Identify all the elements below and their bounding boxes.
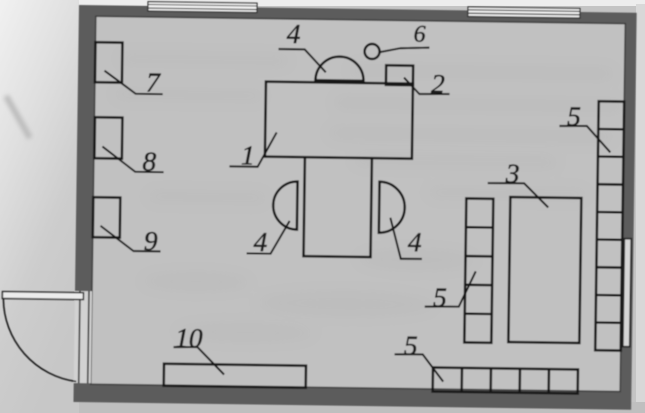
svg-text:6: 6 — [413, 22, 425, 48]
cabinet row 5 bottom dividers — [462, 368, 549, 393]
svg-text:1: 1 — [241, 139, 255, 170]
door jamb inner line — [88, 291, 89, 383]
label 4 right leader — [390, 218, 423, 259]
label 4 top leader — [278, 49, 326, 72]
cabinet column 5 (right wall) — [595, 101, 624, 350]
svg-text:4: 4 — [253, 226, 267, 257]
table 3 — [508, 197, 581, 343]
top page strip — [79, 0, 645, 6]
cabinet column 5 right dividers — [596, 129, 624, 323]
right page margin — [636, 4, 645, 413]
label 3 leader — [487, 183, 548, 208]
bottom page strip — [79, 402, 645, 413]
bench 10 — [164, 364, 306, 388]
left page margin — [0, 0, 80, 413]
label 2 leader — [404, 78, 450, 95]
door swing arc — [2, 299, 77, 382]
svg-text:4: 4 — [408, 226, 422, 257]
door opening in left wall — [74, 291, 92, 383]
door leaf — [2, 292, 83, 300]
window W2 inner lines — [468, 10, 580, 15]
svg-text:7: 7 — [146, 66, 161, 97]
window W1 inner lines — [148, 4, 257, 9]
faint print-through mottling — [110, 52, 624, 346]
cabinet row 5 (bottom) — [433, 367, 578, 393]
door jamb outer line — [79, 291, 80, 383]
left margin smudge — [6, 96, 30, 138]
label 5 right leader — [559, 126, 611, 153]
label 6 leader — [380, 47, 430, 53]
label 4 left leader — [247, 220, 290, 254]
window W2 in top wall — [468, 7, 580, 18]
cabinet 9 — [93, 197, 121, 237]
label 5 bottom leader — [394, 354, 443, 382]
svg-text:2: 2 — [431, 68, 445, 99]
item 6 (circle) — [364, 44, 379, 59]
room interior floor — [91, 16, 626, 391]
chair 4 right (semicircle) — [379, 182, 405, 233]
svg-text:10: 10 — [175, 322, 203, 353]
cabinet 7 — [95, 42, 123, 82]
label 5 middle leader — [425, 271, 476, 308]
cabinet column 5 middle dividers — [465, 227, 493, 314]
cabinet column 5 (middle) — [464, 198, 493, 342]
cabinet 8 — [94, 117, 122, 158]
svg-text:5: 5 — [404, 330, 418, 361]
label 7 leader — [104, 71, 163, 95]
label 9 leader — [100, 226, 161, 252]
svg-text:8: 8 — [142, 145, 156, 176]
svg-text:3: 3 — [505, 157, 520, 188]
svg-text:5: 5 — [433, 281, 447, 312]
label 10 leader — [173, 347, 224, 375]
desk 1 — [265, 82, 413, 159]
window in right wall — [623, 239, 632, 347]
chair 4 top (semicircle) — [315, 56, 363, 81]
desk pedestal — [304, 157, 372, 257]
window W1 in top wall — [148, 2, 257, 13]
svg-text:4: 4 — [287, 18, 301, 49]
label 1 leader — [229, 132, 276, 167]
label 8 leader — [102, 147, 164, 173]
chair 4 left (semicircle) — [273, 181, 298, 229]
item 2 (box on desk) — [386, 65, 413, 85]
interior wall edge line — [91, 16, 626, 391]
svg-text:5: 5 — [567, 100, 581, 131]
svg-text:9: 9 — [144, 225, 158, 256]
